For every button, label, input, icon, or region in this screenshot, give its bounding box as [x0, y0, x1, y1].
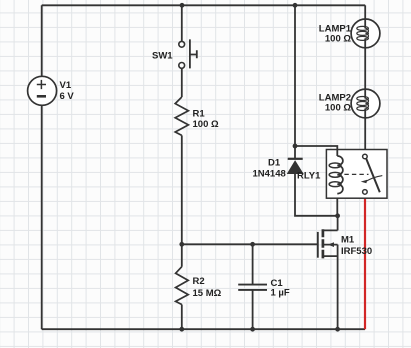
lamp LAMP1 [319, 19, 380, 48]
svg-text:RLY1: RLY1 [297, 171, 321, 182]
node: top rail / SW1 branch [180, 3, 185, 8]
voltage source V1 [28, 76, 75, 105]
wire: node to relay coil [295, 146, 337, 156]
MOSFET M1 [318, 229, 372, 258]
wire: LAMP1 to LAMP2 [364, 40, 366, 96]
svg-text:SW1: SW1 [152, 51, 173, 62]
wire: relay NO contact red wire [364, 194, 366, 329]
node: top rail / diode branch [293, 3, 298, 8]
svg-text:100 Ω: 100 Ω [325, 34, 351, 45]
switch SW1 [152, 39, 197, 68]
wire: LAMP2 to relay contact [364, 111, 366, 155]
wire: R1 to R2 [181, 135, 183, 266]
node: coil bottom / diode / drain [335, 213, 340, 218]
svg-text:100 Ω: 100 Ω [325, 103, 351, 114]
wire: top rail [42, 4, 366, 6]
wire: SW1 to R1 [181, 69, 183, 98]
svg-text:R1: R1 [193, 109, 206, 120]
lamp LAMP2 [319, 89, 380, 118]
wire: diode cathode lead [294, 146, 296, 159]
wire: left rail lower [41, 105, 43, 329]
wire: left rail upper [41, 5, 43, 76]
wire: MOSFET drain lead up [337, 216, 339, 231]
node: bottom rail / MOSFET source [335, 327, 340, 332]
wire: C1 upper lead [252, 244, 254, 284]
wire: right branch top (to LAMP1) [364, 5, 366, 26]
svg-text:1N4148: 1N4148 [253, 169, 286, 180]
resistor R2 [176, 267, 222, 305]
wire: bottom rail [42, 328, 365, 330]
wire: R2 to bottom rail [181, 305, 183, 330]
svg-text:M1: M1 [341, 235, 355, 246]
svg-text:V1: V1 [60, 80, 72, 91]
wire: C1 lower lead [252, 290, 254, 329]
resistor R1 [175, 97, 219, 135]
wire: MOSFET source to bottom rail [337, 245, 339, 330]
capacitor C1 [238, 278, 290, 299]
diode D1 [253, 158, 303, 180]
svg-text:100 Ω: 100 Ω [193, 119, 219, 130]
svg-text:15 MΩ: 15 MΩ [193, 288, 222, 299]
svg-text:1 µF: 1 µF [271, 288, 290, 299]
svg-text:6 V: 6 V [60, 91, 75, 102]
node: diode / relay coil top [293, 144, 298, 149]
svg-text:D1: D1 [268, 158, 281, 169]
svg-text:R2: R2 [193, 276, 205, 287]
wire: middle branch top (to SW1) [181, 5, 183, 41]
wire: relay coil bottom lead [336, 194, 338, 216]
wire: diode branch from top rail [294, 5, 296, 146]
node: bottom rail / C1 [250, 327, 255, 332]
node: gate wire / middle branch [179, 242, 184, 247]
wire: gate wire [182, 243, 318, 245]
node: gate wire / C1 [250, 242, 255, 247]
svg-text:IRF530: IRF530 [341, 246, 372, 257]
wire: diode anode lead [295, 174, 338, 216]
node: bottom rail / R2 [179, 327, 184, 332]
relay RLY1 [297, 150, 387, 199]
